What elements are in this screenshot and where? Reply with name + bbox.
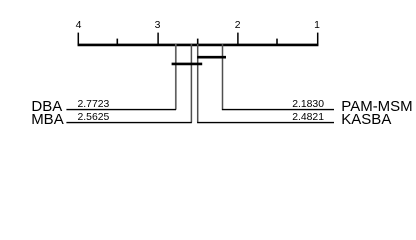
PAM-MSM label	[341, 99, 412, 114]
PAM-MSM rank value	[292, 100, 324, 110]
major tick 3	[157, 33, 159, 45]
KASBA label	[341, 112, 391, 127]
MBA label	[31, 112, 64, 127]
MBA rank value	[78, 113, 110, 123]
axis label 2	[226, 21, 250, 31]
KASBA rank value	[292, 113, 324, 123]
DBA vertical line	[175, 44, 177, 110]
clique bar KASBA-PAM-MSM	[197, 56, 226, 59]
major tick 2	[237, 33, 239, 45]
KASBA label line	[197, 122, 334, 124]
minor tick 1.5	[276, 39, 278, 45]
PAM-MSM vertical line	[222, 44, 224, 110]
axis line	[78, 44, 319, 47]
DBA rank value	[78, 100, 110, 110]
PAM-MSM label line	[222, 109, 334, 111]
KASBA vertical line	[197, 44, 199, 123]
MBA vertical line	[190, 44, 192, 123]
minor tick 3.5	[116, 39, 118, 45]
major tick 1	[317, 33, 319, 45]
axis label 1	[305, 21, 329, 31]
DBA label	[31, 99, 62, 114]
DBA label line	[66, 109, 176, 111]
axis label 3	[146, 21, 170, 31]
minor tick 2.5	[197, 39, 199, 45]
MBA label line	[66, 122, 191, 124]
major tick 4	[77, 33, 79, 45]
clique bar DBA-MBA-KASBA	[172, 63, 203, 66]
axis label 4	[67, 21, 91, 31]
